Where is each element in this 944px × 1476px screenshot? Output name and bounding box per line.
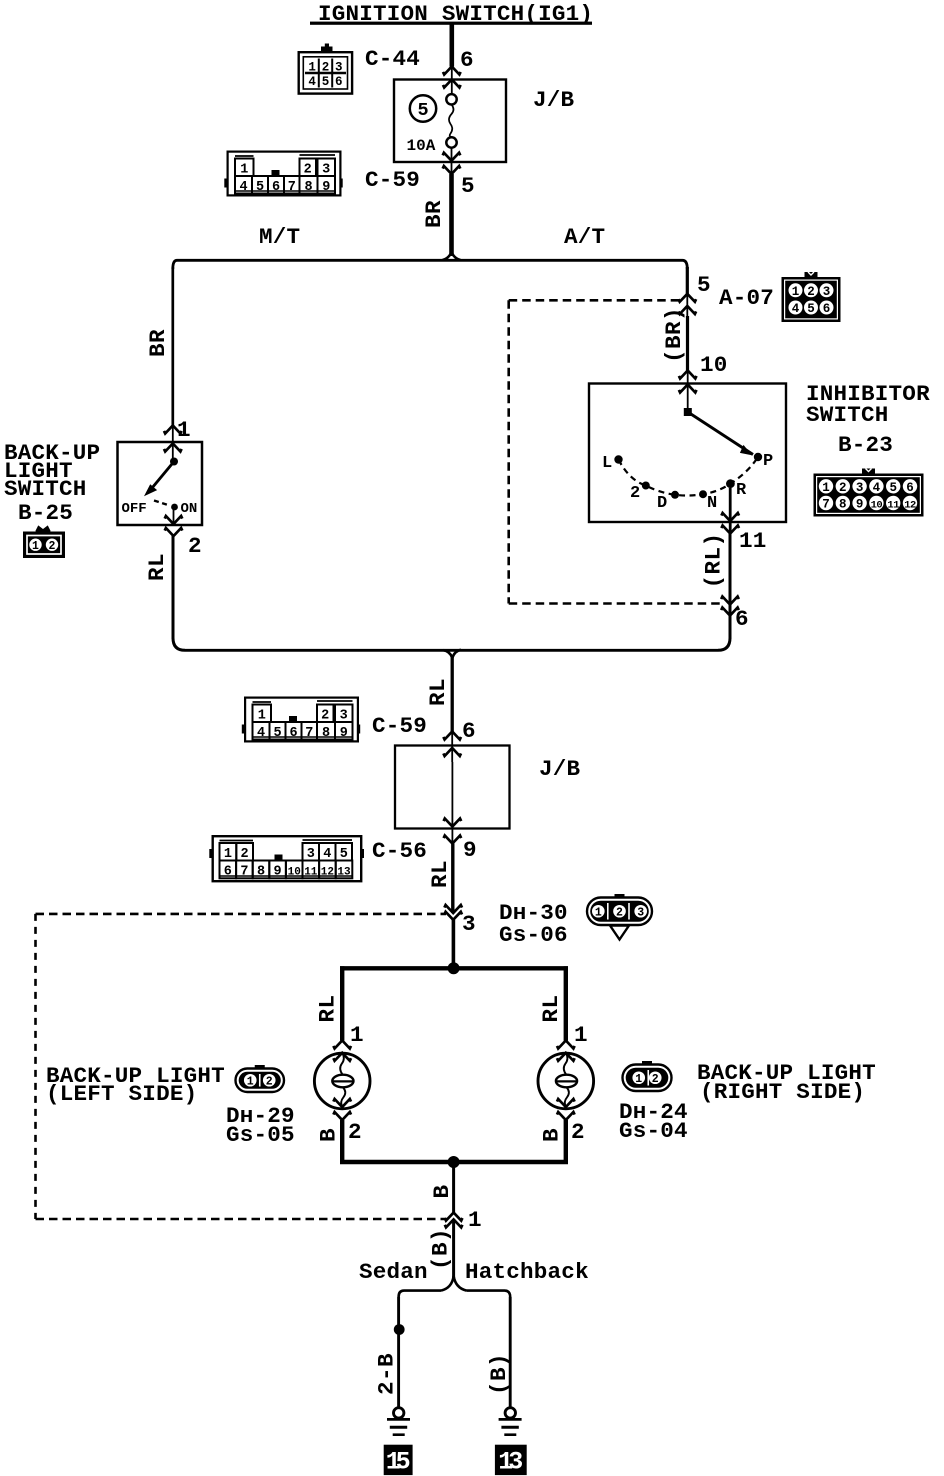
svg-text:1: 1 — [822, 481, 830, 495]
svg-text:B-25: B-25 — [18, 500, 73, 526]
junction dot on sedan branch — [394, 1324, 405, 1335]
wire: RL collector bus joining M/T and A/T — [185, 650, 718, 658]
wire RL down to lamp branch junction — [452, 920, 456, 966]
contact position labels L 2 D N R P — [602, 452, 773, 513]
wire label RL (left lamp) — [315, 995, 341, 1023]
svg-text:5: 5 — [273, 726, 281, 741]
svg-text:(B): (B) — [428, 1228, 454, 1270]
svg-text:2: 2 — [348, 1119, 362, 1145]
wire through lower J/B — [451, 762, 453, 827]
svg-text:SWITCH: SWITCH — [4, 476, 87, 502]
svg-text:6: 6 — [823, 302, 831, 316]
svg-text:5: 5 — [417, 100, 428, 121]
svg-text:R: R — [736, 481, 747, 500]
wire RL down to lower J/B — [451, 657, 454, 732]
svg-text:2: 2 — [630, 484, 640, 503]
svg-text:4: 4 — [308, 75, 316, 89]
svg-text:(B): (B) — [486, 1353, 512, 1395]
wire 2-B sedan branch — [397, 1297, 400, 1407]
junction block J/B box (upper) — [394, 80, 506, 163]
fuse number circled 5 — [410, 95, 436, 121]
wire BR left M/T branch down — [171, 267, 174, 426]
ground reference box 13 — [495, 1445, 527, 1476]
svg-text:10: 10 — [700, 352, 728, 378]
svg-text:10: 10 — [871, 499, 883, 511]
svg-text:3: 3 — [462, 911, 476, 937]
svg-text:Gѕ-05: Gѕ-05 — [226, 1122, 295, 1148]
back-up light switch B-25 box — [118, 442, 203, 525]
svg-text:B: B — [539, 1128, 565, 1142]
svg-text:6: 6 — [335, 75, 343, 89]
svg-text:3: 3 — [856, 481, 864, 495]
svg-text:1: 1 — [32, 540, 39, 553]
svg-text:1: 1 — [350, 1022, 364, 1048]
svg-text:4: 4 — [792, 302, 800, 316]
connector pin 6 chevrons (C-59 lower) — [443, 732, 461, 763]
svg-text:3: 3 — [335, 60, 343, 74]
svg-text:1: 1 — [247, 1075, 254, 1088]
connector Dh-24/Gs-04 icon (2-pin oval) — [623, 1061, 672, 1091]
svg-text:6: 6 — [906, 481, 914, 495]
wire label B (right lamp) — [539, 1128, 565, 1142]
wire B down from lamp loop — [452, 1162, 455, 1213]
svg-text:9: 9 — [463, 837, 477, 863]
junction node dot (bottom of lamp loop) — [448, 1156, 460, 1168]
svg-text:N: N — [707, 494, 717, 513]
wire label (RL) vertical — [701, 533, 727, 589]
svg-text:4: 4 — [873, 481, 881, 495]
inhibitor contact dots L 2 D N R on arc — [614, 455, 758, 499]
svg-text:Hatchback: Hatchback — [465, 1259, 589, 1285]
Dh-30 connector triangle pointer — [610, 926, 629, 940]
svg-text:8: 8 — [839, 497, 847, 511]
svg-text:1: 1 — [177, 417, 191, 443]
wire RL from switch down to collector — [173, 536, 185, 650]
svg-text:BR: BR — [145, 329, 171, 357]
wire below left lamp — [340, 1120, 344, 1164]
INHIBITOR SWITCH label — [806, 381, 930, 428]
inhibitor switch rotor arm and contact P — [684, 408, 762, 461]
wire: lamp loop bottom bus — [340, 1160, 568, 1164]
svg-text:6: 6 — [289, 726, 297, 741]
svg-text:2: 2 — [616, 906, 623, 919]
title IGNITION SWITCH(IG1) — [310, 1, 593, 27]
connector pin 9 chevrons (C-56) — [444, 819, 462, 844]
wire below right lamp — [564, 1120, 568, 1164]
wire: left lamp drop RL — [340, 966, 344, 1040]
svg-text:P: P — [763, 452, 773, 471]
svg-text:1: 1 — [574, 1022, 588, 1048]
svg-text:7: 7 — [822, 497, 830, 511]
svg-text:11: 11 — [887, 499, 899, 511]
connector B-25 icon (2-pin black) — [23, 527, 65, 559]
svg-text:11: 11 — [304, 866, 318, 878]
svg-text:BR: BR — [421, 200, 447, 228]
svg-text:8: 8 — [304, 180, 312, 195]
svg-text:3: 3 — [322, 162, 330, 177]
svg-text:8: 8 — [257, 864, 265, 879]
svg-text:RL: RL — [427, 860, 453, 888]
dashed hatchback option line lower and left side — [36, 914, 447, 1219]
svg-text:2: 2 — [49, 540, 56, 553]
connector B-23 icon (12-pin black) — [814, 469, 923, 517]
BACK-UP LIGHT SWITCH text block — [4, 440, 100, 526]
svg-text:3: 3 — [637, 906, 644, 919]
connector pin 10 chevrons into inhibitor switch — [679, 371, 697, 410]
svg-text:4: 4 — [239, 180, 247, 195]
svg-text:5: 5 — [889, 481, 897, 495]
wire label RL (right lamp) — [538, 995, 564, 1023]
svg-text:5: 5 — [461, 173, 475, 199]
svg-text:5: 5 — [256, 180, 264, 195]
connector C-59 icon (9-pin, lower) — [242, 698, 360, 742]
svg-text:15: 15 — [386, 1448, 411, 1476]
svg-text:J/B: J/B — [539, 756, 581, 782]
svg-text:A-07: A-07 — [719, 285, 774, 311]
svg-text:3: 3 — [307, 847, 315, 862]
svg-text:A/T: A/T — [564, 224, 605, 250]
svg-text:13: 13 — [337, 866, 351, 878]
svg-text:(LEFT SIDE): (LEFT SIDE) — [46, 1081, 197, 1107]
svg-text:1: 1 — [240, 162, 248, 177]
junction node dot (top of lamp loop) — [448, 962, 460, 974]
connector C-59 icon (9-pin, upper) — [224, 152, 342, 196]
svg-text:8: 8 — [322, 726, 330, 741]
svg-text:RL: RL — [538, 995, 564, 1023]
back-up light bulb left (Dh-29) — [314, 1041, 370, 1121]
dashed hatchback option line upper — [36, 913, 447, 916]
wire: ignition feed drop from title — [449, 23, 454, 67]
svg-text:9: 9 — [856, 497, 864, 511]
wire: M/T A/T split horizontal bus — [173, 252, 688, 269]
svg-text:2: 2 — [807, 285, 815, 299]
svg-text:13: 13 — [498, 1448, 523, 1476]
svg-text:12: 12 — [321, 866, 334, 878]
svg-text:J/B: J/B — [533, 87, 575, 113]
svg-text:L: L — [602, 454, 612, 473]
svg-text:C-44: C-44 — [365, 46, 420, 72]
svg-text:C-56: C-56 — [372, 838, 427, 864]
wire label (B) vertical (hatchback) — [486, 1353, 512, 1395]
svg-text:11: 11 — [739, 528, 767, 554]
wire (RL) down with connector 6 chevrons — [718, 534, 739, 651]
svg-text:5: 5 — [322, 75, 330, 89]
wire label RL (vertical, left) — [144, 553, 170, 581]
svg-text:D: D — [657, 494, 667, 513]
svg-text:2-B: 2-B — [374, 1353, 400, 1395]
wire: sedan/hatchback split — [399, 1276, 511, 1297]
svg-text:12: 12 — [904, 499, 916, 511]
wire label 2-B (vertical) — [374, 1353, 400, 1395]
svg-text:1: 1 — [595, 906, 602, 919]
fuse 5 10A symbol — [446, 94, 456, 148]
ground symbol 13 (hatchback) — [499, 1408, 522, 1435]
svg-text:7: 7 — [288, 180, 296, 195]
svg-text:4: 4 — [257, 726, 265, 741]
wire label RL (vertical, center lower) — [427, 860, 453, 888]
svg-text:3: 3 — [340, 708, 348, 723]
connector pin 2 chevrons below switch — [165, 507, 183, 536]
connector pin 3 chevrons (Dh-30/Gs-06) — [444, 905, 462, 920]
BACK-UP LIGHT (RIGHT SIDE) text — [697, 1060, 876, 1105]
back-up light bulb right (Dh-24) — [538, 1041, 594, 1121]
svg-text:6: 6 — [462, 718, 476, 744]
junction block J/B box (lower) — [395, 746, 510, 829]
svg-text:1: 1 — [308, 60, 316, 74]
connector symbol pin 6 (C-44) double chevrons — [443, 67, 461, 95]
wire label B (left lamp) — [316, 1128, 342, 1142]
wire (B) down to sedan/hatchback split — [452, 1219, 455, 1278]
svg-text:OFF: OFF — [122, 501, 147, 517]
svg-text:1: 1 — [792, 285, 800, 299]
svg-text:(BR): (BR) — [661, 307, 687, 363]
wire label BR (vertical, left) — [145, 329, 171, 357]
wire label RL (vertical, center upper) — [425, 678, 451, 706]
svg-text:Gѕ-04: Gѕ-04 — [619, 1118, 688, 1144]
wire A/T branch down to connector A-07 — [686, 267, 689, 294]
wire label (BR) vertical — [661, 307, 687, 363]
svg-text:Gѕ-06: Gѕ-06 — [499, 922, 568, 948]
svg-text:M/T: M/T — [259, 224, 300, 250]
svg-text:6: 6 — [735, 606, 749, 632]
connector A-07 icon (6-pin black) — [782, 272, 840, 322]
svg-text:7: 7 — [240, 864, 248, 879]
connector pin 1 chevrons into back-up light switch — [164, 426, 182, 462]
inhibitor switch B-23 box — [589, 384, 786, 523]
wire (BR) down to inhibitor switch — [686, 316, 689, 371]
dashed option box around A/T circuit — [509, 300, 721, 603]
back-up light switch lever and contacts — [144, 458, 178, 511]
connector pin 5 chevrons (A-07) — [679, 294, 697, 316]
svg-text:Sedan: Sedan — [359, 1259, 428, 1285]
svg-text:2: 2 — [571, 1119, 585, 1145]
connector pin 11 chevrons below inhibitor switch — [721, 488, 739, 534]
svg-text:10: 10 — [288, 866, 301, 878]
connector C-44 icon (6-pin grid 1-6) — [299, 44, 352, 94]
svg-text:4: 4 — [323, 847, 331, 862]
svg-text:(RL): (RL) — [701, 533, 727, 589]
svg-text:5: 5 — [340, 847, 348, 862]
ground symbol 15 (sedan) — [387, 1408, 410, 1435]
wire RL down to harness connector — [451, 844, 454, 914]
wire BR from J/B down to M/T-A/T split — [449, 174, 454, 256]
svg-text:C-59: C-59 — [372, 713, 427, 739]
connector pin 1 chevrons (body harness) — [445, 1213, 463, 1228]
svg-text:1: 1 — [468, 1207, 482, 1233]
svg-text:1: 1 — [635, 1073, 642, 1086]
svg-text:2: 2 — [652, 1073, 659, 1086]
svg-text:3: 3 — [823, 285, 831, 299]
svg-text:B: B — [429, 1184, 455, 1198]
wire: lamp loop top bus — [340, 966, 568, 970]
connector Dh-30/Gs-06 icon (3-pin oval) — [587, 894, 652, 925]
svg-text:6: 6 — [224, 864, 232, 879]
wire label B (vertical, bottom) — [429, 1184, 455, 1198]
wire label (B) vertical — [428, 1228, 454, 1270]
svg-text:6: 6 — [272, 180, 280, 195]
svg-text:2: 2 — [322, 60, 330, 74]
svg-text:6: 6 — [460, 47, 474, 73]
svg-text:B: B — [316, 1128, 342, 1142]
svg-text:9: 9 — [322, 180, 330, 195]
svg-text:SWITCH: SWITCH — [806, 402, 889, 428]
wire: right lamp drop RL — [564, 966, 568, 1040]
connector C-56 icon (13-pin) — [209, 836, 364, 881]
svg-text:C-59: C-59 — [365, 167, 420, 193]
svg-text:2: 2 — [839, 481, 847, 495]
svg-text:2: 2 — [241, 847, 249, 862]
svg-text:RL: RL — [425, 678, 451, 706]
wire (B) hatchback branch — [509, 1297, 512, 1407]
svg-text:9: 9 — [340, 726, 348, 741]
connector symbol pin 5 (C-59) double chevrons — [443, 148, 461, 174]
svg-text:B-23: B-23 — [838, 432, 893, 458]
svg-text:(RIGHT SIDE): (RIGHT SIDE) — [700, 1079, 865, 1105]
svg-text:ON: ON — [181, 501, 198, 517]
svg-text:9: 9 — [274, 864, 282, 879]
svg-text:5: 5 — [697, 272, 711, 298]
connector Dh-29/Gs-05 icon (2-pin oval) — [236, 1065, 285, 1092]
svg-text:2: 2 — [266, 1075, 273, 1088]
svg-text:2: 2 — [304, 162, 312, 177]
svg-text:RL: RL — [144, 553, 170, 581]
svg-text:5: 5 — [807, 302, 815, 316]
svg-text:1: 1 — [258, 708, 266, 723]
svg-text:2: 2 — [321, 708, 329, 723]
wire label BR (vertical) — [421, 200, 447, 228]
svg-text:2: 2 — [188, 533, 202, 559]
svg-text:RL: RL — [315, 995, 341, 1023]
svg-text:7: 7 — [305, 726, 313, 741]
ground reference box 15 — [384, 1445, 413, 1476]
BACK-UP LIGHT (LEFT SIDE) text — [46, 1063, 225, 1107]
svg-text:1: 1 — [224, 847, 232, 862]
svg-text:10A: 10A — [407, 137, 436, 155]
